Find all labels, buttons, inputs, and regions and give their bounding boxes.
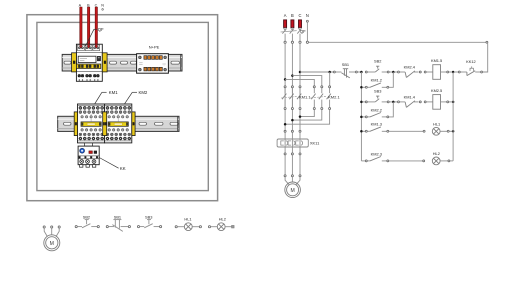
node: row C junction — [392, 101, 395, 104]
svg-text:KM1.4: KM1.4 — [404, 95, 416, 100]
supply wire C (red) — [95, 7, 98, 48]
motor terminal row — [284, 175, 301, 177]
right control bus (vertical) — [452, 72, 454, 161]
supply fuse/source box phase C — [299, 20, 302, 28]
supply wire A (red) — [79, 7, 82, 48]
wire KK12 to neutral bus — [483, 43, 488, 72]
wire node to KM1.4 — [394, 101, 397, 103]
svg-text:KM2.3: KM2.3 — [371, 151, 382, 156]
breaker right rail clamp — [102, 53, 107, 72]
contactor KM1 (panel device) — [78, 104, 105, 143]
terminal row below QF — [284, 41, 309, 43]
label QF with leader — [86, 27, 104, 46]
connector XK11 — [277, 132, 320, 153]
svg-text:KK12: KK12 — [466, 59, 476, 64]
svg-text:SB3: SB3 — [374, 89, 381, 94]
wire HL1 to right bus — [449, 130, 452, 132]
svg-text:XK11: XK11 — [310, 140, 320, 145]
node: row E right bus junction — [452, 130, 455, 133]
circuit breaker QF (panel device) — [75, 44, 102, 81]
auxiliary contact KM1.3 — [360, 122, 389, 133]
svg-text:SB3: SB3 — [145, 214, 152, 219]
svg-text:KM2.4: KM2.4 — [404, 65, 416, 70]
contactor middle rail clamp — [103, 112, 107, 136]
node: tap junction on L3 — [299, 71, 302, 74]
contactor KM2 (panel device) — [105, 104, 132, 143]
wire HL2 to right bus — [450, 160, 453, 162]
latch contact KM2.2 — [360, 107, 389, 118]
panel enclosure outer wall — [27, 15, 218, 201]
start button SB3 (schematic) — [360, 89, 389, 104]
node: row C right bus junction — [449, 101, 455, 104]
phase wire L2 (vertical) — [291, 43, 293, 130]
svg-text:HL2: HL2 — [219, 217, 226, 222]
node: row A junction — [392, 71, 395, 74]
label KM1 with leader — [95, 90, 119, 104]
svg-text:SB2: SB2 — [83, 214, 90, 219]
svg-text:HL1: HL1 — [184, 217, 191, 222]
node: left bus row A — [360, 71, 363, 74]
coil KM2.5 — [426, 88, 449, 109]
lamp HL2 (bottom symbol) — [208, 217, 234, 231]
supply wire B (red) — [87, 7, 90, 48]
circuit breaker QF (schematic, 3-pole) — [281, 28, 307, 42]
svg-text:KM1.3: KM1.3 — [371, 122, 382, 127]
svg-text:HL1: HL1 — [433, 122, 440, 127]
svg-text:C: C — [299, 13, 302, 18]
breaker left rail clamp — [72, 53, 77, 72]
label N+PE — [149, 44, 160, 49]
auxiliary contact KM2.3 — [361, 151, 388, 162]
feed wire L1 to KM2.1 pole1 — [285, 79, 314, 85]
node: merge junction on L3 — [299, 115, 302, 118]
neutral terminal N — [306, 20, 308, 41]
contactor left rail clamp — [74, 112, 77, 136]
svg-text:KM1: KM1 — [109, 90, 118, 95]
svg-text:KM1.5: KM1.5 — [431, 58, 442, 63]
DIN rail 1 — [62, 54, 182, 71]
wire node to KM2.4 — [394, 71, 397, 73]
svg-text:N: N — [101, 3, 104, 7]
lamp HL1 (schematic) — [432, 122, 449, 136]
wire to KK12 — [454, 71, 458, 73]
svg-text:M: M — [290, 188, 294, 194]
motor feeder wires — [285, 155, 300, 175]
terminal row above connector XK11 — [284, 130, 301, 132]
svg-text:KM1.2: KM1.2 — [371, 78, 382, 83]
left control bus (vertical) — [360, 72, 362, 161]
thermal overload contact KK1.2 — [458, 59, 482, 75]
wire KM2.3 to lamp HL2 — [389, 160, 425, 162]
svg-text:N: N — [306, 13, 309, 18]
svg-text:QF: QF — [98, 27, 104, 32]
node: merge junction on L2 — [291, 119, 294, 122]
merge wire KM2.1 pole3 to L1 — [285, 110, 330, 125]
node: row A right bus junction — [449, 71, 455, 74]
pushbutton SB1 (bottom symbol, NC mushroom) — [106, 215, 130, 232]
svg-text:KM2.5: KM2.5 — [431, 88, 442, 93]
svg-text:KM1.1: KM1.1 — [299, 95, 311, 100]
wire SB2 to node — [389, 71, 392, 73]
wire KM1.2 up to row A — [389, 72, 394, 87]
start button SB2 (schematic) — [365, 59, 389, 73]
svg-text:B: B — [291, 13, 294, 18]
svg-text:A: A — [284, 13, 287, 18]
label KK with leader — [99, 158, 126, 171]
svg-text:HL2: HL2 — [433, 151, 440, 156]
wire KM1.3 to lamp HL1 — [389, 130, 425, 132]
wire KM2.2 up to row C — [389, 102, 394, 117]
supply fuse/source box phase B — [291, 20, 294, 28]
feed wire L3 to KM2.1 pole3 — [329, 72, 331, 86]
terminal row below connector XK11 — [284, 153, 301, 155]
lamp HL1 (bottom symbol) — [175, 217, 201, 231]
phase wire L1 (vertical) — [284, 43, 286, 130]
motor M (bottom symbol) — [43, 226, 60, 251]
pushbutton SB2 (bottom symbol) — [75, 214, 99, 227]
node: feed junction on L1 — [284, 78, 287, 81]
merge wire KM2.1 pole1 to L3 — [300, 110, 314, 117]
supply fuse/source box phase A — [284, 20, 287, 28]
svg-text:SB1: SB1 — [342, 62, 349, 67]
node: feed junction on L2 — [291, 74, 294, 77]
DIN rail 2 — [58, 116, 179, 131]
main contact KM1.1 (3-pole) — [281, 86, 311, 110]
schematic phase labels A B C N — [284, 13, 309, 18]
contactor right rail clamp — [132, 112, 135, 136]
label KM2 with leader — [124, 90, 148, 104]
svg-text:KM2.2: KM2.2 — [371, 107, 382, 112]
supply phase labels A B C N (panel) — [79, 3, 105, 10]
svg-text:SB1: SB1 — [114, 215, 121, 220]
wire SB1 to left bus — [357, 71, 361, 73]
svg-text:KM2: KM2 — [138, 90, 147, 95]
svg-text:N+PE: N+PE — [149, 44, 160, 49]
merge wire KM2.1 pole2 to L2 — [292, 110, 321, 121]
svg-text:KM2.1: KM2.1 — [328, 95, 340, 100]
svg-text:QF: QF — [300, 29, 306, 34]
terminal block N+PE — [137, 54, 169, 73]
svg-text:M: M — [50, 241, 54, 247]
stop button SB1 (schematic) — [335, 62, 357, 78]
main contact KM2.1 (3-pole) — [310, 86, 340, 110]
svg-text:SB2: SB2 — [374, 59, 381, 64]
feed wire L2 to KM2.1 pole2 — [292, 76, 321, 86]
lamp HL2 (schematic) — [432, 151, 450, 165]
phase wire L3 (vertical) — [299, 43, 301, 130]
wire SB3 to node — [389, 101, 392, 103]
pushbutton SB3 (bottom symbol) — [137, 214, 161, 227]
node: merge junction on L1 — [284, 123, 287, 126]
svg-text:KK: KK — [120, 166, 126, 171]
coil KM1.5 — [426, 58, 449, 79]
neutral bus wire N (top horizontal) — [309, 41, 488, 43]
latch contact KM1.2 — [360, 78, 389, 89]
control tap wire to SB1 — [300, 71, 335, 74]
interlock contact KM2.4 (NC) — [398, 65, 427, 78]
interlock contact KM1.4 (NC) — [398, 95, 427, 108]
motor M (schematic) — [285, 177, 301, 198]
thermal relay KK (panel device) — [78, 143, 99, 167]
panel enclosure inner wall — [37, 22, 208, 190]
